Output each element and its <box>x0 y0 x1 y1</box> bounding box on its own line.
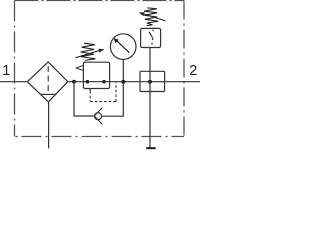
regulator spring <box>81 43 96 60</box>
check valve V1 <box>95 113 102 120</box>
regulator relief vent triangle <box>76 65 84 70</box>
wire: filter to regulator <box>68 81 84 83</box>
switch contact <box>152 30 154 31</box>
filter element (dashed centerline) <box>47 66 49 94</box>
regulator pilot line (dashed) <box>89 89 91 92</box>
wire: riser to pressure switch <box>149 47 151 82</box>
wire: gauge stem <box>122 59 124 81</box>
node: branch junction <box>72 80 76 84</box>
svg-text:1: 1 <box>2 63 10 79</box>
node: gauge junction <box>121 80 125 84</box>
switch adjust arrow <box>144 14 166 21</box>
regulator adjust arrow <box>76 51 100 58</box>
enclosure border (dash-dot) <box>15 1 185 137</box>
pressure gauge G1 <box>110 34 136 60</box>
switch spring <box>144 8 158 26</box>
wire: bypass loop left <box>74 82 95 116</box>
node: regulator inlet seat <box>86 80 90 84</box>
filter F1 (diamond) <box>27 62 68 102</box>
wire: port 1 to filter <box>0 81 27 83</box>
gauge needle <box>117 41 130 53</box>
filter drain line <box>48 102 50 149</box>
wire: block to port 2 <box>165 81 200 83</box>
wire: exhaust drop <box>149 82 151 148</box>
svg-text:2: 2 <box>189 63 197 79</box>
regulator R1 (box) <box>83 62 109 88</box>
node: regulator outlet seat <box>102 80 106 84</box>
pressure switch S1 (box) <box>141 28 161 47</box>
distribution block (right box) <box>140 71 165 91</box>
filter separator chord <box>40 93 56 95</box>
node: block junction <box>148 80 152 84</box>
wire: bypass loop right <box>102 82 124 116</box>
wire: flow path through regulator <box>84 81 165 83</box>
exhaust end bar <box>146 147 155 149</box>
